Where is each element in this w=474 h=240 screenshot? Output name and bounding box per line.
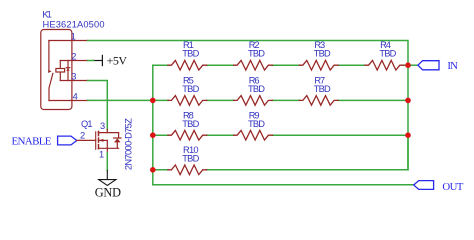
junction right row2 bbox=[405, 98, 411, 104]
ground symbol GND bbox=[99, 170, 116, 185]
transistor Q1 drain pin bbox=[106, 129, 108, 132]
svg-text:TBD: TBD bbox=[182, 49, 199, 59]
wire pin1 to right bus (top) bbox=[88, 41, 408, 66]
transistor Q1 gate bar bbox=[95, 132, 97, 150]
resistor R1 bbox=[168, 60, 207, 70]
wire pin2 to +5V bbox=[88, 60, 94, 62]
junction left row4 bbox=[150, 167, 156, 173]
transistor Q1 body diode bbox=[114, 133, 121, 149]
IN port flag bbox=[418, 61, 439, 70]
transistor Q1 drain lead bbox=[98, 132, 118, 134]
svg-text:1: 1 bbox=[71, 31, 76, 41]
transistor Q1 channel dashes bbox=[98, 131, 100, 148]
row4 right wire to bus bbox=[207, 135, 408, 170]
resistor R4 bbox=[365, 60, 404, 70]
resistor R5 bbox=[168, 96, 207, 106]
transistor Q1 source lead bbox=[98, 147, 118, 149]
row 1 wires bbox=[153, 64, 418, 66]
row 2 wires bbox=[153, 99, 408, 101]
junction left row2 bbox=[150, 98, 156, 104]
svg-text:OUT: OUT bbox=[442, 181, 463, 193]
svg-text:1: 1 bbox=[99, 150, 104, 160]
svg-text:K1: K1 bbox=[42, 9, 52, 19]
transistor Q1 body arrow bbox=[98, 139, 107, 141]
svg-text:2: 2 bbox=[80, 131, 85, 141]
right bus wire bbox=[407, 65, 409, 170]
resistor R8 bbox=[168, 130, 207, 140]
relay coil lead bbox=[59, 61, 61, 81]
OUT port flag bbox=[414, 181, 434, 190]
row 3 wires bbox=[153, 134, 408, 136]
junction right IN bbox=[405, 62, 411, 68]
ENABLE port flag bbox=[58, 136, 77, 145]
svg-text:TBD: TBD bbox=[248, 119, 265, 129]
svg-text:TBD: TBD bbox=[314, 49, 331, 59]
relay armature line bbox=[48, 41, 50, 70]
relay diode cathode bar bbox=[66, 67, 70, 69]
wire pin3 down to Q1 drain bbox=[88, 81, 108, 130]
svg-text:3: 3 bbox=[71, 71, 76, 81]
svg-text:TBD: TBD bbox=[379, 49, 396, 59]
svg-text:HE3621A0500: HE3621A0500 bbox=[43, 19, 105, 29]
relay armature arrow bbox=[48, 70, 51, 73]
wire Q1 source to GND bbox=[106, 153, 108, 171]
resistor R3 bbox=[299, 60, 338, 70]
relay diode lead bbox=[67, 61, 69, 81]
row 4 wires bbox=[153, 169, 168, 171]
svg-text:TBD: TBD bbox=[248, 49, 265, 59]
relay pin 4 stub bbox=[49, 100, 88, 102]
svg-text:+5V: +5V bbox=[107, 53, 128, 67]
svg-text:4: 4 bbox=[73, 91, 78, 101]
transistor Q1 source pin bbox=[106, 140, 108, 152]
svg-text:Q1: Q1 bbox=[81, 119, 93, 129]
junction left row3 bbox=[150, 132, 156, 138]
wire ENABLE to Q1 gate bbox=[77, 139, 96, 141]
resistor R6 bbox=[234, 96, 273, 106]
relay pin 3 stub bbox=[60, 80, 87, 82]
resistor R7 bbox=[299, 96, 338, 106]
left bus wire bbox=[152, 65, 154, 185]
relay pin 1 stub bbox=[49, 40, 88, 42]
svg-text:GND: GND bbox=[95, 185, 121, 199]
OUT wire (bottom) bbox=[153, 184, 414, 186]
svg-text:TBD: TBD bbox=[248, 84, 265, 94]
svg-text:2: 2 bbox=[71, 51, 76, 61]
relay diode triangle bbox=[66, 68, 69, 71]
+5V power symbol bbox=[94, 55, 103, 65]
svg-text:2N7000-D75Z: 2N7000-D75Z bbox=[123, 118, 133, 170]
junction right row3 bbox=[405, 132, 411, 138]
svg-text:IN: IN bbox=[447, 60, 458, 72]
relay pin 2 stub bbox=[60, 60, 87, 62]
relay K1 body outline bbox=[41, 30, 72, 110]
relay switch blade bbox=[49, 73, 53, 100]
wire pin4 to left bus bbox=[88, 99, 153, 101]
svg-text:TBD: TBD bbox=[182, 84, 199, 94]
resistor R9 bbox=[234, 130, 273, 140]
resistor R2 bbox=[234, 60, 273, 70]
svg-text:3: 3 bbox=[100, 121, 105, 131]
svg-text:ENABLE: ENABLE bbox=[12, 135, 52, 147]
resistor R10 bbox=[168, 165, 207, 175]
svg-text:TBD: TBD bbox=[182, 119, 199, 129]
svg-text:TBD: TBD bbox=[314, 84, 331, 94]
svg-text:TBD: TBD bbox=[182, 153, 199, 163]
relay coil box bbox=[56, 69, 65, 73]
